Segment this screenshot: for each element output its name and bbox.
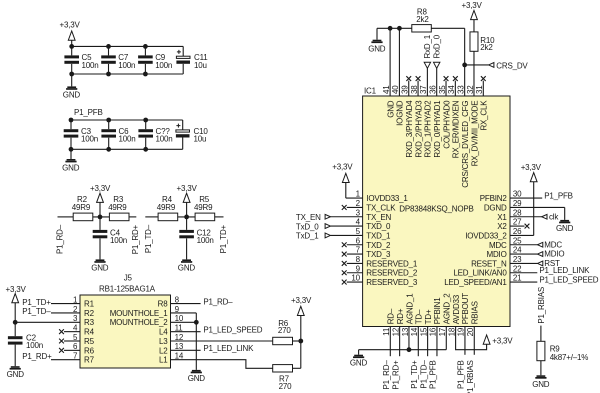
svg-text:RESERVED_2: RESERVED_2 <box>366 269 418 278</box>
wire GND rail (bank 2 bottom) <box>71 148 183 150</box>
svg-text:3: 3 <box>356 208 361 217</box>
node RxD_0 (signal flag, pin 36) <box>432 34 441 96</box>
power +3.3V (R10) <box>462 1 483 32</box>
node junction AGND rail <box>407 347 412 352</box>
svg-text:39: 39 <box>401 85 410 94</box>
svg-text:P1_TD–: P1_TD– <box>144 224 153 253</box>
node TxD_1 (signal flag, pin 5) <box>296 232 363 241</box>
wire IC pin 12 stub <box>399 327 401 357</box>
svg-text:40: 40 <box>391 85 400 94</box>
svg-text:35: 35 <box>438 85 447 94</box>
capacitor C5 100n <box>64 46 98 74</box>
svg-text:3: 3 <box>73 314 78 323</box>
capacitor C10 10u (electrolytic) <box>176 120 208 149</box>
node junction R6/+3.3V <box>298 339 303 344</box>
svg-text:30: 30 <box>513 190 522 199</box>
svg-text:49R9: 49R9 <box>157 203 176 212</box>
svg-text:270: 270 <box>278 326 291 335</box>
no-connect IC pin 27 X2 <box>510 224 529 229</box>
svg-text:R8: R8 <box>158 300 169 309</box>
wire IC pin 18 AVDD33 to +3.3V <box>456 327 487 350</box>
wire P1_PFB rail (bank 2 top) <box>71 119 183 121</box>
wire R5 to P1_TD+ <box>215 216 224 218</box>
svg-text:P1_TD–: P1_TD– <box>22 307 51 316</box>
svg-text:6: 6 <box>73 342 78 351</box>
svg-text:23: 23 <box>513 255 522 264</box>
svg-text:CRS_DV: CRS_DV <box>496 61 528 70</box>
svg-text:X2: X2 <box>497 222 507 231</box>
svg-text:P1_TD+: P1_TD+ <box>410 360 419 389</box>
wire IC pin 19 stub <box>464 327 466 355</box>
svg-text:LED_LINK/AN0: LED_LINK/AN0 <box>453 269 507 278</box>
svg-text:MOUNTHOLE_2: MOUNTHOLE_2 <box>110 318 169 327</box>
wire AGND rail <box>359 350 447 355</box>
wire IC pin 41 to GND rail <box>389 28 391 96</box>
svg-text:29: 29 <box>513 199 522 208</box>
ground (network 1) <box>91 238 109 272</box>
no-connect IC pin 31 <box>481 76 486 96</box>
svg-text:31: 31 <box>475 85 484 94</box>
svg-text:32: 32 <box>466 85 475 94</box>
no-connect J5 pin 5 <box>59 339 80 344</box>
wire +3.3V rail (bank 1 top) <box>72 45 184 47</box>
wire J5 pin 13 / node P1_LED_LINK <box>171 344 255 353</box>
svg-text:RX_ER/MDIXEN: RX_ER/MDIXEN <box>452 100 461 158</box>
svg-text:P1_RD–: P1_RD– <box>56 224 65 254</box>
svg-text:18: 18 <box>447 327 456 336</box>
svg-text:7: 7 <box>356 246 361 255</box>
svg-text:P1_PFB: P1_PFB <box>74 108 103 117</box>
resistor R4 49R9 <box>157 195 178 221</box>
svg-text:100n: 100n <box>82 61 99 70</box>
svg-text:10u: 10u <box>194 61 207 70</box>
svg-text:P1_PFB: P1_PFB <box>429 360 438 389</box>
svg-text:R7: R7 <box>84 356 95 365</box>
svg-text:clk: clk <box>549 212 559 221</box>
wire GND rail (bank 1 bottom) <box>72 73 184 75</box>
svg-text:8: 8 <box>175 295 180 304</box>
wire IC pin 20 stub <box>473 327 475 355</box>
capacitor C3 100n <box>64 120 98 149</box>
wire P1_TD- to R4 <box>145 216 158 218</box>
node junction R4/R5/C12 <box>184 215 189 220</box>
svg-text:RD+: RD+ <box>396 308 405 324</box>
svg-text:RxD_0: RxD_0 <box>432 34 441 58</box>
svg-text:L2: L2 <box>159 346 168 355</box>
svg-text:PFBOUT: PFBOUT <box>461 293 470 325</box>
svg-text:36: 36 <box>429 85 438 94</box>
power +3.3V (network R2/R3) <box>90 184 111 217</box>
ground (J5 shield) <box>188 370 206 383</box>
svg-text:TXD_3: TXD_3 <box>366 250 391 259</box>
wire IC pin 30 / node P1_PFB <box>510 191 573 200</box>
wire R8 to IC pin 33 <box>431 28 464 96</box>
svg-text:R6: R6 <box>84 346 95 355</box>
svg-text:IOVDD33_2: IOVDD33_2 <box>465 231 507 240</box>
ground (bank 2) <box>62 149 80 172</box>
node junction R2/R3/C4 <box>98 215 103 220</box>
svg-text:TX_EN: TX_EN <box>366 213 391 222</box>
svg-text:P1_RD+: P1_RD+ <box>22 352 52 361</box>
power +3.3V (network R4/R5) <box>177 184 198 217</box>
no-connect IC pin 7 <box>342 252 363 257</box>
svg-text:34: 34 <box>447 85 456 94</box>
svg-text:26: 26 <box>513 227 522 236</box>
power +3.3V (IC pin 1) <box>332 163 362 198</box>
svg-text:RXD_1/PHYAD2: RXD_1/PHYAD2 <box>424 100 433 158</box>
resistor R2 49R9 <box>72 195 93 221</box>
power +3.3V (J5 / C2) <box>6 285 27 322</box>
resistor R8 2k2 <box>412 7 432 32</box>
wire IC pin 21 / node P1_LED_SPEED <box>510 275 599 284</box>
svg-text:P1_PFB: P1_PFB <box>544 191 573 200</box>
svg-text:1: 1 <box>356 190 361 199</box>
node junctions bank 2 <box>69 118 149 152</box>
wire J5 pin 10 to GND <box>171 321 197 323</box>
svg-text:P1_LED_LINK: P1_LED_LINK <box>203 344 254 353</box>
node P1_TD- / wire to J5 pin 2 <box>22 307 80 316</box>
svg-text:100n: 100n <box>118 61 135 70</box>
svg-text:28: 28 <box>513 208 522 217</box>
svg-text:TX_CLK: TX_CLK <box>366 203 396 212</box>
wire IC pin 16 stub <box>436 327 438 357</box>
resistor R5 49R9 <box>194 195 215 221</box>
svg-text:12: 12 <box>175 333 184 342</box>
node P1_TD+ / wire to J5 pin 1 <box>22 298 80 307</box>
svg-text:12: 12 <box>391 327 400 336</box>
no-connect IC pin 10 <box>342 280 363 285</box>
node junction CRS_DV tap <box>462 63 467 68</box>
ground (top, pins 40/41) <box>368 40 386 54</box>
svg-text:33: 33 <box>456 85 465 94</box>
svg-text:PFBIN2: PFBIN2 <box>480 194 508 203</box>
no-connect IC pin 39 <box>406 76 411 96</box>
node P1_RD+ / wire to J5 pin 7 <box>22 352 80 361</box>
svg-text:RD–: RD– <box>387 308 396 324</box>
wire P1_RBIAS to R9 <box>540 326 542 342</box>
svg-text:P1_RD+: P1_RD+ <box>391 360 400 390</box>
power +3.3V (LED pull-ups) <box>291 296 312 368</box>
svg-text:100n: 100n <box>26 341 43 350</box>
svg-text:R4: R4 <box>84 328 95 337</box>
svg-text:+3,3V: +3,3V <box>291 296 312 305</box>
svg-text:P1_LED_SPEED: P1_LED_SPEED <box>539 275 598 284</box>
svg-text:P1_RBIAS: P1_RBIAS <box>537 287 546 324</box>
svg-text:14: 14 <box>410 327 419 336</box>
svg-text:9: 9 <box>175 305 180 314</box>
svg-text:MOUNTHOLE_1: MOUNTHOLE_1 <box>110 309 169 318</box>
svg-text:GND: GND <box>350 359 368 368</box>
svg-text:100n: 100n <box>156 135 173 144</box>
svg-text:R1: R1 <box>84 300 95 309</box>
svg-text:2: 2 <box>73 305 78 314</box>
svg-text:+3,3V: +3,3V <box>177 184 198 193</box>
svg-text:24: 24 <box>513 246 522 255</box>
svg-text:RxD_1: RxD_1 <box>423 34 432 58</box>
IC top pin numbers 41-31 <box>382 85 484 94</box>
wire R10 to IC pin 32 <box>473 51 475 96</box>
wire GND rail (top) <box>377 28 412 39</box>
svg-text:13: 13 <box>401 327 410 336</box>
svg-text:49R9: 49R9 <box>108 203 127 212</box>
svg-text:IOGND: IOGND <box>396 100 405 126</box>
wire J5 pin 14 to R7 <box>171 360 273 369</box>
node TX_EN (signal flag, pin 3) <box>296 213 363 222</box>
svg-text:270: 270 <box>279 382 292 391</box>
ground (network 2) <box>178 238 196 272</box>
svg-text:LED_SPEED/AN1: LED_SPEED/AN1 <box>444 278 507 287</box>
wire R9 to ground <box>540 361 542 376</box>
svg-text:L1: L1 <box>159 356 168 365</box>
node junctions bank 1 <box>69 44 148 76</box>
svg-text:16: 16 <box>429 327 438 336</box>
svg-text:AGND_2: AGND_2 <box>443 293 452 325</box>
svg-text:J5: J5 <box>124 273 133 282</box>
no-connect IC pin 38 <box>416 76 421 96</box>
power +3.3V (IC pin 26) <box>510 163 542 235</box>
svg-text:TxD_0: TxD_0 <box>296 222 319 231</box>
IC right pin numbers 30-21 <box>513 190 522 283</box>
wire IC pin 40 to GND rail <box>398 28 400 96</box>
IC bottom pin names <box>387 293 480 325</box>
svg-text:TXD_1: TXD_1 <box>366 231 391 240</box>
no-connect IC pin 35 <box>444 76 449 96</box>
svg-text:100n: 100n <box>197 236 214 245</box>
svg-text:GND: GND <box>556 224 574 233</box>
no-connect IC pin 9 <box>342 270 363 275</box>
svg-text:X1: X1 <box>497 213 507 222</box>
wire J5 pin 9 to GND <box>171 313 197 370</box>
wire R3 to P1_RD+ <box>129 216 136 218</box>
svg-text:P1_LED_SPEED: P1_LED_SPEED <box>203 325 262 334</box>
svg-text:R5: R5 <box>84 337 95 346</box>
svg-text:P1_PFB: P1_PFB <box>457 360 466 389</box>
svg-text:AVDD33: AVDD33 <box>452 294 461 324</box>
svg-text:5: 5 <box>73 333 78 342</box>
svg-text:100n: 100n <box>119 135 136 144</box>
node junction +3.3V/C2/pin3 <box>13 320 18 325</box>
svg-text:4: 4 <box>73 323 78 332</box>
capacitor C7 100n <box>101 46 135 74</box>
wire J5 pin 8 / node P1_RD- <box>171 298 234 307</box>
svg-text:GND: GND <box>188 374 206 383</box>
svg-text:100n: 100n <box>155 61 172 70</box>
ground (AGND) <box>350 355 368 368</box>
svg-text:P1_RD+: P1_RD+ <box>131 224 140 254</box>
ground (bank 1) <box>63 74 81 99</box>
node RxD_1 (signal flag, pin 37) <box>423 34 432 96</box>
svg-text:41: 41 <box>382 85 391 94</box>
svg-text:RESERVED_3: RESERVED_3 <box>366 278 418 287</box>
svg-text:L3: L3 <box>159 337 168 346</box>
no-connect IC pin 2 TX_CLK <box>342 205 363 210</box>
svg-text:2k2: 2k2 <box>416 15 429 24</box>
resistor R9 4k87+/-1% <box>537 341 588 362</box>
wire R6 to +3.3V rail <box>293 340 301 342</box>
IC left pin names <box>366 194 418 287</box>
svg-text:+3,3V: +3,3V <box>60 21 81 30</box>
J5 pin numbers 1-7 <box>73 295 78 360</box>
power +3.3V (AVDD33) <box>483 335 513 345</box>
svg-text:8: 8 <box>356 255 361 264</box>
ground (C2) <box>7 345 25 380</box>
svg-text:6: 6 <box>356 236 361 245</box>
svg-text:49R9: 49R9 <box>72 203 91 212</box>
svg-text:100n: 100n <box>110 236 127 245</box>
svg-text:GND: GND <box>91 263 109 272</box>
wire IC pin 15 stub <box>427 327 429 357</box>
svg-text:4: 4 <box>356 218 361 227</box>
connector J5 RB1-125BAG1A (body) <box>80 273 171 368</box>
svg-text:GND: GND <box>368 44 386 53</box>
svg-text:1: 1 <box>73 295 78 304</box>
resistor R3 49R9 <box>108 195 129 221</box>
resistor R7 270 <box>273 365 293 392</box>
node TxD_0 (signal flag, pin 4) <box>296 222 363 231</box>
svg-text:R3: R3 <box>84 318 95 327</box>
svg-text:MDC: MDC <box>544 240 562 249</box>
svg-text:14: 14 <box>175 352 184 361</box>
node junction pin9/pin10 <box>194 320 199 325</box>
no-connect J5 pin 6 <box>59 348 80 353</box>
svg-text:10u: 10u <box>194 135 207 144</box>
svg-text:DGND: DGND <box>484 203 507 212</box>
wire CRS_DV tap <box>465 64 489 66</box>
wire IC pin 22 / node P1_LED_LINK <box>510 266 590 275</box>
svg-text:GND: GND <box>63 90 81 99</box>
ground (pin 29) <box>556 220 574 233</box>
svg-text:COL/PHYAD0: COL/PHYAD0 <box>442 100 451 149</box>
svg-text:RB1-125BAG1A: RB1-125BAG1A <box>99 284 156 293</box>
svg-text:2k2: 2k2 <box>480 43 493 52</box>
svg-text:+3,3V: +3,3V <box>332 163 353 172</box>
wire IC pin 17 AGND_2 to ground rail <box>445 327 447 350</box>
wire R7 to +3.3V rail <box>293 367 301 369</box>
svg-text:RXD_0/PHYAD1: RXD_0/PHYAD1 <box>433 100 442 158</box>
svg-text:GND: GND <box>386 100 395 118</box>
svg-text:37: 37 <box>419 85 428 94</box>
svg-text:RESERVED_1: RESERVED_1 <box>366 259 418 268</box>
svg-text:TxD_1: TxD_1 <box>296 232 319 241</box>
capacitor C12 100n <box>179 217 213 245</box>
wire J5 pin 12 to R6 <box>171 340 273 342</box>
no-connect J5 pin 4 <box>59 329 80 334</box>
svg-text:7: 7 <box>73 352 78 361</box>
capacitor C4 100n <box>93 217 127 245</box>
svg-text:AGND_1: AGND_1 <box>405 293 414 325</box>
node RST (signal flag, pin 23) <box>510 259 560 268</box>
svg-text:5: 5 <box>356 227 361 236</box>
wire R4-R5 junction <box>178 216 195 218</box>
svg-text:11: 11 <box>382 327 391 336</box>
svg-text:25: 25 <box>513 236 522 245</box>
svg-text:P1_TD+: P1_TD+ <box>219 224 228 253</box>
svg-text:49R9: 49R9 <box>194 203 213 212</box>
resistor R10 2k2 <box>470 32 495 52</box>
svg-text:+3,3V: +3,3V <box>6 285 27 294</box>
resistor R6 270 <box>273 319 293 345</box>
svg-text:21: 21 <box>513 274 522 283</box>
IC U1 DP83848KSQ_NOPB (body) <box>363 86 510 326</box>
wire IC pin 13 AGND_1 to ground rail <box>408 327 410 350</box>
IC left pin numbers 1-10 <box>351 190 360 283</box>
svg-text:R2: R2 <box>84 309 95 318</box>
svg-text:P1_RD–: P1_RD– <box>203 298 233 307</box>
svg-text:9: 9 <box>356 264 361 273</box>
capacitor C11 10u (electrolytic) <box>176 46 208 74</box>
svg-text:IC1: IC1 <box>364 86 377 95</box>
capacitor C9 100n <box>138 46 172 74</box>
svg-text:27: 27 <box>513 218 522 227</box>
svg-text:RBIAS: RBIAS <box>471 301 480 324</box>
svg-text:MDC: MDC <box>489 241 507 250</box>
capacitor C2 100n <box>8 322 43 350</box>
no-connect IC pin 8 <box>342 261 363 266</box>
svg-text:RESET_N: RESET_N <box>471 259 507 268</box>
svg-text:17: 17 <box>438 327 447 336</box>
node CRS_DV (signal flag) <box>489 61 529 70</box>
svg-text:TXD_0: TXD_0 <box>366 222 391 231</box>
svg-text:4k87+/–1%: 4k87+/–1% <box>550 353 589 362</box>
svg-text:RXD_3/PHYAD4: RXD_3/PHYAD4 <box>405 100 414 158</box>
svg-text:+3,3V: +3,3V <box>90 184 111 193</box>
svg-text:+3,3V: +3,3V <box>462 1 483 10</box>
svg-text:20: 20 <box>466 327 475 336</box>
svg-text:RX_DV/MII_MODE: RX_DV/MII_MODE <box>470 101 479 167</box>
svg-text:TX_EN: TX_EN <box>296 213 321 222</box>
svg-text:RX_CLK: RX_CLK <box>480 100 489 131</box>
svg-text:GND: GND <box>532 380 550 389</box>
svg-text:TD–: TD– <box>415 309 424 324</box>
wire P1_RD- to R2 <box>58 216 74 218</box>
ground (R9) <box>532 375 550 389</box>
svg-text:2: 2 <box>356 199 361 208</box>
svg-text:TD+: TD+ <box>424 309 433 324</box>
svg-text:13: 13 <box>175 342 184 351</box>
capacitor C6 100n <box>101 120 135 149</box>
no-connect IC pin 34 <box>453 76 458 96</box>
svg-text:15: 15 <box>419 327 428 336</box>
svg-text:P1_RD–: P1_RD– <box>382 360 391 390</box>
svg-text:P1_RBIAS: P1_RBIAS <box>466 360 475 393</box>
svg-text:PFBIN1: PFBIN1 <box>433 297 442 325</box>
svg-text:38: 38 <box>410 85 419 94</box>
svg-text:P1_TD+: P1_TD+ <box>22 298 51 307</box>
J5 pin names R1-R7 <box>84 300 95 365</box>
IC bottom pin numbers 11-20 <box>382 327 475 336</box>
svg-text:10: 10 <box>351 274 360 283</box>
svg-text:DP83848KSQ_NOPB: DP83848KSQ_NOPB <box>399 205 473 214</box>
svg-text:+3,3V: +3,3V <box>521 163 542 172</box>
svg-text:MDIO: MDIO <box>544 250 564 259</box>
svg-text:GND: GND <box>7 370 25 379</box>
power +3.3V (bank 1) <box>60 21 81 47</box>
svg-text:GND: GND <box>62 164 80 173</box>
wire J5 pin 3 to +3.3V node <box>15 321 80 323</box>
IC top pin names <box>386 100 488 188</box>
capacitor C?? 100n <box>138 120 172 149</box>
svg-text:P1_TD–: P1_TD– <box>419 360 428 389</box>
svg-text:19: 19 <box>457 327 466 336</box>
wire R2-R3 junction <box>93 216 110 218</box>
svg-text:GND: GND <box>178 263 196 272</box>
svg-text:TXD_2: TXD_2 <box>366 241 391 250</box>
node P1_PFB (bank 2 net label) <box>74 108 103 117</box>
J5 pin names R8/MOUNTHOLE/L4-L1 <box>110 300 169 365</box>
svg-text:100n: 100n <box>81 135 98 144</box>
wire J5 pin 11 / node P1_LED_SPEED <box>171 325 263 334</box>
svg-text:CRS/CRS_DV/LED_CFG: CRS/CRS_DV/LED_CFG <box>461 101 470 188</box>
